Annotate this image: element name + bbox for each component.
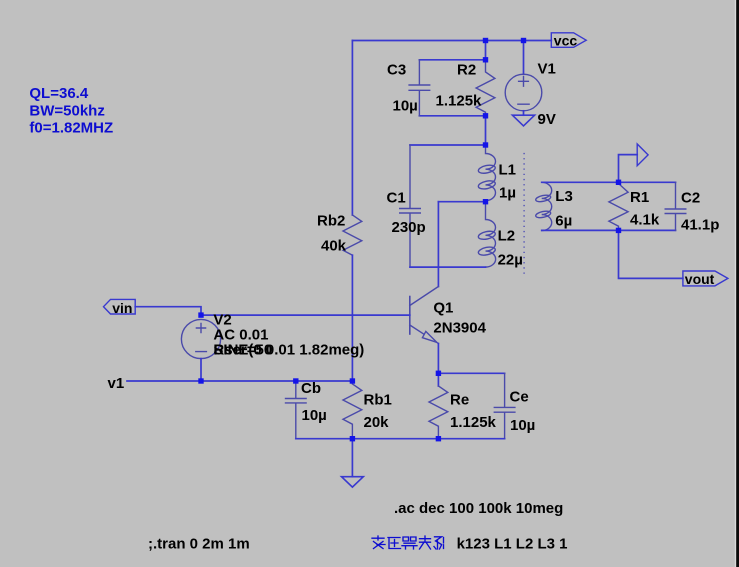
- ground main: [342, 477, 364, 487]
- capacitor C3: [409, 60, 430, 116]
- junction Rb1 bottom: [350, 436, 355, 441]
- svg-text:f0=1.82MHZ: f0=1.82MHZ: [29, 120, 113, 137]
- junction L1-L2 tap: [483, 199, 488, 204]
- svg-text:SINE(0 0.01 1.82meg): SINE(0 0.01 1.82meg): [213, 341, 364, 358]
- wire R2 top lead: [485, 41, 487, 60]
- svg-text:6µ: 6µ: [555, 212, 572, 229]
- coupling line k123: [523, 153, 525, 277]
- svg-text:40k: 40k: [321, 238, 347, 255]
- wire left vertical lower (Rb2 to Rb1): [351, 255, 353, 381]
- resistor R1: [609, 184, 628, 231]
- svg-text:vout: vout: [685, 271, 715, 287]
- resistor Re: [429, 386, 448, 439]
- wire V1 bottom lead: [523, 111, 525, 115]
- svg-text:vcc: vcc: [554, 33, 578, 49]
- comment chinese transformer relation glyphs: [372, 536, 444, 549]
- junction emitter-Re: [436, 371, 441, 376]
- wire V2 bottom: [200, 359, 202, 381]
- wire secondary top rail: [542, 181, 676, 183]
- flag vout: [683, 271, 728, 286]
- junction V2 top (base): [198, 312, 203, 317]
- svg-text:v1: v1: [108, 375, 125, 392]
- svg-text:C3: C3: [387, 62, 406, 79]
- svg-text:C2: C2: [681, 190, 700, 207]
- capacitor C1: [400, 145, 421, 267]
- junction C3bot-R2: [483, 113, 488, 118]
- wire emitter vertical: [437, 344, 439, 374]
- wire Re top lead: [437, 373, 439, 386]
- svg-text:BW=50khz: BW=50khz: [29, 102, 104, 119]
- inductor L3: [535, 182, 552, 230]
- junction Rb1 top: [350, 378, 355, 383]
- capacitor Cb: [286, 381, 307, 439]
- wire top rail vcc: [352, 40, 551, 42]
- wire collector vertical: [437, 202, 439, 287]
- junction vcc-V1: [521, 38, 526, 43]
- voltage source V2: [181, 319, 220, 358]
- svg-text:22µ: 22µ: [498, 252, 523, 269]
- svg-text:L2: L2: [498, 228, 516, 245]
- junction Re bottom: [436, 436, 441, 441]
- svg-text:1.125k: 1.125k: [450, 414, 497, 431]
- wire C3 bottom: [419, 115, 485, 117]
- wire V1 top lead: [523, 41, 525, 75]
- svg-text:vin: vin: [112, 300, 132, 316]
- svg-text:k123 L1 L2 L3 1: k123 L1 L2 L3 1: [457, 536, 568, 553]
- svg-text:QL=36.4: QL=36.4: [29, 85, 88, 102]
- resistor Rb2: [343, 215, 362, 255]
- svg-text:1µ: 1µ: [499, 185, 516, 202]
- inductor L2: [478, 202, 496, 267]
- svg-text:L3: L3: [555, 188, 573, 205]
- wire base: [201, 314, 410, 316]
- svg-text:230p: 230p: [392, 219, 426, 236]
- wire C3 top: [419, 59, 485, 61]
- junction vcc-R2: [483, 38, 488, 43]
- svg-text:9V: 9V: [538, 111, 556, 128]
- flag vcc: [551, 33, 586, 48]
- flag arrow (net flag): [619, 155, 638, 183]
- capacitor C2: [665, 182, 686, 230]
- svg-text:;.tran 0 2m 1m: ;.tran 0 2m 1m: [148, 536, 250, 553]
- wire left vertical upper (vcc to Rb2): [351, 41, 353, 216]
- junction C3top-R2: [483, 57, 488, 62]
- svg-text:10µ: 10µ: [510, 417, 535, 434]
- resistor Rb1: [343, 384, 362, 439]
- svg-text:1.125k: 1.125k: [436, 92, 483, 109]
- svg-text:V1: V1: [538, 61, 556, 78]
- wire bottom rail: [296, 438, 505, 440]
- svg-text:20k: 20k: [364, 414, 390, 431]
- svg-text:Rb1: Rb1: [364, 391, 392, 408]
- svg-text:4.1k: 4.1k: [630, 212, 660, 229]
- wire vin to V2: [135, 307, 201, 315]
- inductor L1: [478, 145, 496, 202]
- wire L2 bottom to C1: [410, 266, 486, 268]
- right edge black strip: [736, 0, 739, 567]
- svg-text:R2: R2: [457, 62, 476, 79]
- junction C1top-L1: [483, 142, 488, 147]
- svg-text:Ce: Ce: [510, 389, 529, 406]
- wire to vout: [619, 230, 683, 278]
- right edge light column: [735, 0, 736, 567]
- wire emitter rail to Ce: [438, 372, 504, 374]
- wire R2 bottom to tank: [485, 116, 487, 145]
- junction Cb top: [293, 378, 298, 383]
- junction R1 bottom: [616, 228, 621, 233]
- svg-text:.ac dec 100 100k 10meg: .ac dec 100 100k 10meg: [394, 500, 563, 517]
- transistor Q1: [409, 297, 411, 335]
- resistor R2: [476, 60, 495, 116]
- wire v1 rail: [127, 380, 352, 382]
- flag vin: [104, 299, 136, 314]
- wire secondary bottom rail: [542, 229, 676, 231]
- svg-text:10µ: 10µ: [393, 98, 418, 115]
- svg-text:41.1p: 41.1p: [681, 217, 719, 234]
- ground V1: [512, 115, 534, 126]
- junction V2 bottom (v1): [198, 378, 203, 383]
- junction R1 top: [616, 180, 621, 185]
- svg-text:L1: L1: [499, 161, 517, 178]
- svg-text:2N3904: 2N3904: [433, 319, 486, 336]
- svg-text:Cb: Cb: [301, 380, 321, 397]
- svg-text:R1: R1: [630, 189, 649, 206]
- svg-text:Rb2: Rb2: [317, 213, 345, 230]
- svg-text:10µ: 10µ: [302, 407, 327, 424]
- voltage source V1: [505, 74, 542, 111]
- capacitor Ce: [494, 373, 515, 438]
- svg-text:Q1: Q1: [433, 299, 453, 316]
- wire tap L1-L2 to collector column: [438, 201, 485, 203]
- svg-text:C1: C1: [387, 189, 406, 206]
- wire Rb1 bottom to ground: [351, 439, 353, 477]
- wire C1 top: [410, 144, 486, 146]
- svg-text:Re: Re: [450, 391, 469, 408]
